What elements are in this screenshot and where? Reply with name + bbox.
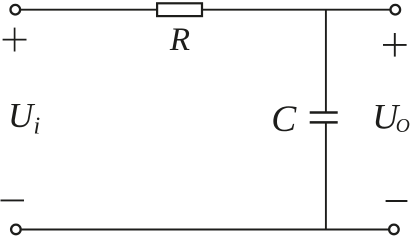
terminal TR (output +) bbox=[391, 5, 401, 15]
wire top-left: TL terminal to resistor bbox=[21, 9, 157, 11]
polarity - (output side) bbox=[386, 200, 408, 202]
svg-text:R: R bbox=[169, 22, 190, 58]
wire top-right: resistor to TR terminal bbox=[202, 9, 390, 11]
polarity + (output side) bbox=[383, 33, 407, 57]
svg-text:U: U bbox=[8, 96, 36, 135]
wire: vertical from top junction down to capacitor top plate bbox=[325, 10, 327, 113]
resistor R bbox=[157, 3, 202, 16]
polarity - (input side) bbox=[1, 199, 25, 201]
svg-text:C: C bbox=[271, 99, 297, 140]
terminal BR (output -) bbox=[389, 225, 399, 235]
terminal TL (input +) bbox=[11, 5, 21, 15]
polarity + (input side) bbox=[3, 28, 27, 52]
wire: vertical from capacitor bottom plate to bottom wire bbox=[325, 122, 327, 229]
svg-text:i: i bbox=[34, 114, 41, 140]
svg-text:O: O bbox=[396, 116, 410, 137]
terminal BL (input -) bbox=[11, 225, 21, 235]
wire bottom: BL terminal to BR terminal bbox=[22, 229, 389, 231]
label Ui (input voltage) bbox=[8, 96, 40, 139]
capacitor C bbox=[310, 113, 338, 123]
label Uo (output voltage) bbox=[372, 97, 410, 138]
